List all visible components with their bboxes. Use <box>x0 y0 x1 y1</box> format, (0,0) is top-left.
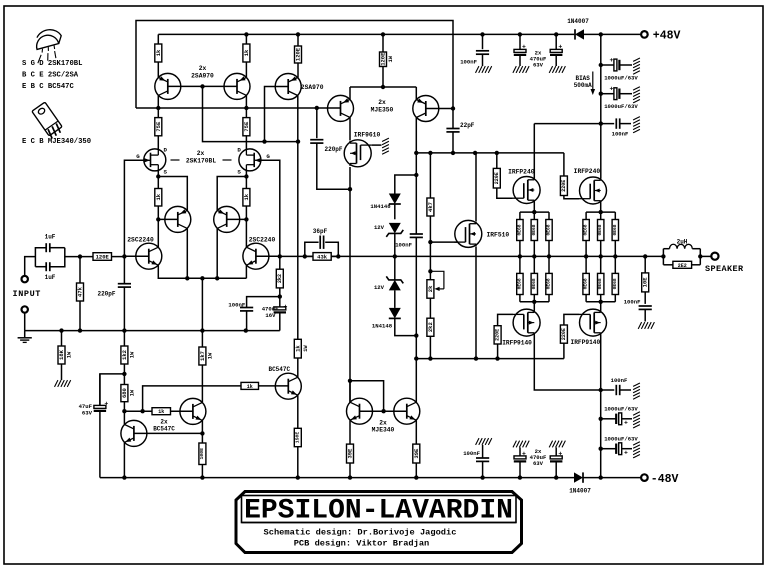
wire 43k stubs <box>305 255 339 257</box>
svg-text:1uF: 1uF <box>45 234 56 241</box>
svg-text:+: + <box>624 449 628 456</box>
svg-text:INPUT: INPUT <box>13 289 42 299</box>
svg-text:1W: 1W <box>302 345 309 352</box>
label + 470a <box>522 44 526 51</box>
svg-text:1k: 1k <box>155 193 162 200</box>
wire Q8 emitter up <box>349 87 351 99</box>
svg-text:2SC2240: 2SC2240 <box>249 237 276 244</box>
resistor 100E <box>199 433 206 477</box>
capacitor 220pF input <box>118 284 131 287</box>
resistor 0E68 bank1a <box>516 212 523 256</box>
node IRF9610 source/220pF <box>348 187 352 191</box>
wire 1k to Q4 base node <box>245 206 247 219</box>
node MJE340 diode node <box>348 379 352 383</box>
wire Q7 base riser <box>265 87 289 142</box>
label + ecap2 <box>610 86 614 93</box>
jfet J1 2SK170BL (left) <box>144 148 166 171</box>
svg-text:BC547C: BC547C <box>153 425 175 432</box>
ground hatch ecap4 <box>633 442 640 458</box>
transistor MJE340 #2 <box>394 398 420 424</box>
node dots lower drive rail <box>414 356 500 360</box>
svg-text:16V: 16V <box>265 312 276 319</box>
label 1N4007 bottom <box>569 488 591 495</box>
capacitor 22pF <box>446 109 459 153</box>
label 1N4148 upper <box>370 203 391 210</box>
wire IRF9610 gate to hatch <box>372 144 382 146</box>
wire rail y=123.6 <box>534 123 614 125</box>
title block frame <box>236 492 522 553</box>
title pcb design <box>294 539 430 549</box>
wire 220E-3 bottom <box>497 344 499 359</box>
node 120E junction <box>381 85 385 89</box>
svg-text:100nF: 100nF <box>624 299 641 306</box>
zener 12V upper <box>386 223 403 237</box>
resistor 1k (J1 source) <box>155 189 162 207</box>
svg-text:100nF: 100nF <box>228 302 245 309</box>
wire 47k to gnd rail <box>79 301 81 331</box>
transistor Q8 MJE350 (left) <box>328 95 354 121</box>
node source bus 2 <box>532 300 536 304</box>
wire BC547-1 base link <box>134 432 203 434</box>
wire Q9 collector down <box>415 117 417 152</box>
capacitor 470uF/63V bot-b <box>549 441 565 478</box>
label 100nF rail top <box>460 59 477 66</box>
diode 1N4007 (+rail, pointing left) <box>575 29 584 39</box>
node bases <box>200 84 204 88</box>
resistor 47k <box>77 283 84 301</box>
wire servo collector <box>297 358 299 377</box>
wire bases down to y=141.6 <box>203 86 299 141</box>
node dots drive rail <box>414 151 499 155</box>
label IRF9610 <box>354 132 381 139</box>
label + 470b <box>558 44 562 51</box>
wire 39E-2 to rail <box>415 463 417 478</box>
wire 2k2 to lower rail <box>429 336 431 358</box>
svg-text:120E: 120E <box>96 254 110 261</box>
wire 1k R top feed <box>157 34 159 44</box>
diode 1N4007 (-rail, pointing right) <box>574 472 583 482</box>
label D pin J2 <box>237 147 241 154</box>
svg-text:0E68: 0E68 <box>516 224 522 235</box>
svg-text:100nF: 100nF <box>612 131 629 138</box>
resistor 4k7 <box>427 198 434 216</box>
label 2x 2SA970 <box>191 65 214 80</box>
svg-text:1k: 1k <box>243 193 250 200</box>
resistor 2k2 feedback <box>276 269 283 288</box>
wire Q4 collector down <box>216 228 218 278</box>
node dots ground rail <box>59 328 248 332</box>
node fb caps <box>278 294 282 298</box>
node x=600.9 y=123.6 <box>599 121 603 125</box>
terminal INPUT ground <box>22 306 28 312</box>
label + 470c <box>522 450 526 457</box>
svg-text:12V: 12V <box>374 224 385 231</box>
ground hatch 470b <box>549 66 565 73</box>
jfet J2 2SK170BL (right, mirrored) <box>239 148 261 171</box>
label BIAS 500mA <box>574 75 592 89</box>
svg-text:2k2: 2k2 <box>427 322 434 332</box>
label 1uF bottom <box>45 274 56 281</box>
wire clamp bottom to lower rail <box>415 336 417 359</box>
svg-text:39E: 39E <box>413 448 420 459</box>
wire 120E/1W down <box>382 67 384 88</box>
wire source node to Q3 emitter <box>158 177 187 211</box>
capacitor 100nF feedback <box>240 308 253 331</box>
wire MJE340 diode link <box>350 381 384 411</box>
svg-text:+: + <box>284 303 288 310</box>
capacitor 1uF bottom of pair <box>35 248 64 272</box>
resistor 43k feedback (horizontal) <box>313 253 331 261</box>
wire 220E-2 to gate <box>564 196 579 199</box>
mosfet IRFP240 #2 <box>579 177 607 204</box>
resistor 1k (Q1 load) <box>155 44 162 62</box>
label IRFP240 #1 <box>508 169 535 176</box>
svg-text:39E: 39E <box>347 448 354 459</box>
wire IRF9610 source down <box>349 167 351 402</box>
ground hatch ecap2 <box>633 87 640 103</box>
label 12V lower <box>374 284 385 291</box>
wire 4k7 down to trimmer <box>429 216 431 280</box>
node BC547 emitter/base <box>200 431 204 435</box>
svg-text:+: + <box>558 450 562 457</box>
node Q9 base <box>451 106 455 110</box>
resistor 0E68 bank2c <box>612 212 619 256</box>
resistor 1k multiplier (horizontal) <box>152 408 171 416</box>
wire collector rail y=108 <box>136 107 341 109</box>
title EPSILON-LAVARDIN <box>244 496 513 527</box>
capacitor 470uF/63V top-b <box>550 34 562 66</box>
node MJE340 link <box>381 409 385 413</box>
wire zener lower to diode <box>394 290 396 308</box>
wire BC547-2 collector up <box>201 365 203 402</box>
label 2uH <box>677 239 688 246</box>
svg-text:100nF: 100nF <box>463 450 480 457</box>
resistor 0E68 bank1d <box>516 256 523 301</box>
wire Q6 base link <box>256 255 280 257</box>
wire rail to zener lower <box>394 256 396 280</box>
wire drive rail to clamp top <box>415 153 417 175</box>
svg-text:75E: 75E <box>155 121 162 132</box>
wire IRFP9140-1 drain <box>534 335 600 390</box>
wire 220E-4 to gate <box>564 314 579 325</box>
resistor 18K 1W <box>58 331 73 380</box>
svg-text:1W: 1W <box>66 351 73 358</box>
ground hatch 100nF top <box>476 66 492 73</box>
wire MJE340-2 collector <box>415 359 417 403</box>
wire fb node to 2k2 <box>279 256 281 269</box>
ground hatch zobel <box>638 322 654 329</box>
wire Q1 collector to node <box>157 95 159 108</box>
wire base node to Q5 collector <box>157 219 159 247</box>
svg-text:0E68: 0E68 <box>546 224 552 235</box>
ground hatch 470a <box>513 66 529 73</box>
resistor 2k2 bias <box>427 318 434 336</box>
svg-text:220E: 220E <box>561 180 567 192</box>
label + ecap3 <box>624 420 628 427</box>
resistor 220E gate IRFP9140-1 <box>494 326 501 344</box>
resistor 1k (J2 source) <box>243 189 250 207</box>
svg-text:220E: 220E <box>495 329 501 341</box>
label 220pF input <box>97 291 115 298</box>
wire IRF510 gate <box>430 241 457 243</box>
wire BC547-2 emitter <box>201 421 203 434</box>
capacitor 36pF over 43k <box>305 236 339 257</box>
svg-text:2E2: 2E2 <box>678 263 687 269</box>
resistor 0E68 bank1e <box>531 256 538 301</box>
svg-text:+: + <box>558 44 562 51</box>
capacitor 1000uF/63V #2 <box>601 88 632 100</box>
wire MJE340-1 collector <box>349 381 351 403</box>
label IRFP9140 #2 <box>571 339 601 346</box>
mosfet IRFP9140 #1 <box>513 309 541 336</box>
label 2x 470uF 63V bottom <box>530 448 547 467</box>
label +48V <box>653 30 681 43</box>
wire 220E-1 to gate <box>497 188 513 198</box>
transistor BC547C #3 <box>275 373 301 399</box>
wire source bus 4 <box>586 301 615 303</box>
svg-text:2uH: 2uH <box>677 239 688 246</box>
ground hatch bypass bottom <box>633 383 640 399</box>
wire 220E-3 to gate <box>498 314 513 325</box>
svg-text:MJE350: MJE350 <box>371 107 394 114</box>
label 2x 470uF 63V top <box>530 50 547 69</box>
svg-text:1k: 1k <box>158 409 164 415</box>
wire J2 source to node <box>245 171 247 177</box>
svg-text:IRFP9140: IRFP9140 <box>502 340 532 347</box>
label G pin J1 <box>136 153 140 160</box>
label IRFP240 #2 <box>574 168 601 175</box>
capacitor 100nF rail bypass top <box>616 118 631 128</box>
svg-text:100nF: 100nF <box>395 242 412 249</box>
svg-text:1k7: 1k7 <box>199 351 206 361</box>
legend TO-92 package drawing <box>31 27 67 63</box>
wire trimmer to 2k2 <box>429 298 431 318</box>
svg-text:S G D 2SK170BL: S G D 2SK170BL <box>22 60 82 68</box>
terminal +48V <box>641 31 648 38</box>
wire 220E-1 top <box>496 153 498 169</box>
transistor Q9 MJE350 (right) <box>413 96 439 122</box>
label 100nF lower mid <box>463 450 480 457</box>
node clamp bottom <box>414 333 418 337</box>
svg-text:BIAS: BIAS <box>575 75 590 82</box>
label 1000uF/63V #4 <box>604 435 638 442</box>
label 1N4007 top <box>567 18 589 25</box>
svg-text:63V: 63V <box>533 460 544 467</box>
svg-text:1N4148: 1N4148 <box>370 203 391 210</box>
label INPUT <box>13 289 42 299</box>
svg-text:+: + <box>104 400 108 407</box>
svg-text:220pF: 220pF <box>325 146 343 153</box>
node Q3 base <box>156 217 160 221</box>
svg-text:IRFP240: IRFP240 <box>508 169 535 176</box>
inductor 2uH with 2E2 <box>663 244 700 269</box>
resistor 0E68 bank2d <box>583 256 590 301</box>
svg-text:IRF9610: IRF9610 <box>354 132 381 139</box>
svg-text:1k: 1k <box>243 49 250 56</box>
svg-text:22pF: 22pF <box>460 122 475 129</box>
label -48V <box>651 473 679 486</box>
resistor 1k 1W (servo) <box>294 339 309 358</box>
wire Q4 base node to Q6 collector <box>245 219 247 247</box>
svg-text:+: + <box>522 450 526 457</box>
wire rail to 120E <box>297 34 299 46</box>
label D pin J1 <box>164 147 168 154</box>
wire 2k2 to cap node <box>279 288 281 297</box>
resistor 1k (Q2 load) <box>243 44 250 62</box>
wire lower drive rail <box>416 358 564 360</box>
resistor 220E gate IRFP240-1 <box>493 168 500 188</box>
wire IRFP240-1 source <box>533 202 535 212</box>
wire BC547-1 collector <box>123 411 125 424</box>
ground hatch bypass top <box>633 117 640 133</box>
wire 1k7 top <box>201 331 203 347</box>
wire rail to 120E/1W <box>382 34 384 52</box>
svg-text:220E: 220E <box>494 172 500 184</box>
wire emitter rail y=87 <box>350 86 416 88</box>
wire 1k to BC547-2 base <box>171 410 193 412</box>
wire base node up to J1 gate <box>124 160 143 256</box>
node dots output rail <box>303 254 666 258</box>
wire Q7 collector long drop <box>297 95 299 339</box>
transistor Q2 2SA970 (right of pair) <box>224 73 250 99</box>
svg-text:+: + <box>610 57 614 64</box>
resistor 680 1W <box>121 374 136 411</box>
svg-text:0E68: 0E68 <box>516 278 522 289</box>
label 36pF <box>313 228 328 235</box>
svg-text:1W: 1W <box>387 55 394 62</box>
svg-text:63V: 63V <box>82 410 93 417</box>
node trimmer top tap <box>428 269 432 273</box>
wire cap node left <box>247 297 280 308</box>
label 220pF VAS <box>325 146 343 153</box>
label 1000uF/63V #1 <box>604 75 638 82</box>
svg-text:SPEAKER: SPEAKER <box>705 264 744 274</box>
transistor BC547C #1 <box>121 420 147 446</box>
label SPEAKER <box>705 264 744 274</box>
wire 75E to J2 drain <box>245 136 247 150</box>
svg-text:2k2: 2k2 <box>277 274 283 283</box>
wire Q1-Q2 bases <box>168 85 237 87</box>
svg-text:MJE340: MJE340 <box>372 426 395 433</box>
capacitor 1uF top of pair <box>35 243 64 267</box>
svg-text:1000uF/63V: 1000uF/63V <box>604 103 638 110</box>
svg-text:1k: 1k <box>155 49 162 56</box>
legend pinout text BC547C <box>22 83 74 91</box>
resistor 0E68 bank2a <box>583 212 590 256</box>
label IRFP9140 #1 <box>502 340 532 347</box>
terminal SPEAKER <box>711 253 718 260</box>
ground earth symbol (input) <box>18 338 32 343</box>
node J1 source <box>156 174 160 178</box>
resistor 75E left <box>155 118 162 136</box>
svg-text:47k: 47k <box>77 286 84 297</box>
svg-text:-48V: -48V <box>651 473 679 486</box>
svg-text:4k7: 4k7 <box>427 202 434 212</box>
resistor 1k7 1W <box>199 347 214 365</box>
svg-text:2x: 2x <box>378 99 386 106</box>
node dots tail rail <box>185 276 219 280</box>
resistor 39E #1 <box>347 444 354 463</box>
svg-text:75E: 75E <box>243 121 250 132</box>
mosfet IRF9610 cascode <box>344 140 372 167</box>
wire diode to zener <box>394 204 396 219</box>
svg-text:0E68: 0E68 <box>597 278 603 289</box>
capacitor 1000uF/63V #4 <box>601 443 632 455</box>
transistor Q6 2SC2240 (right) <box>243 243 269 269</box>
svg-text:0E68: 0E68 <box>546 278 552 289</box>
label 2x MJE350 <box>371 99 394 114</box>
resistor 0E68 bank1b <box>531 212 538 256</box>
node feedback <box>278 254 282 258</box>
wire 150E to rail <box>297 447 299 478</box>
wire BC547-3 emitter <box>297 395 299 428</box>
terminal INPUT signal <box>22 276 28 282</box>
wire Q2 collector to node <box>245 95 247 108</box>
wire node to 75E r <box>245 108 247 118</box>
mosfet IRFP240 #1 <box>513 177 541 204</box>
wire MJE340-2 emitter <box>415 421 417 445</box>
wire bias riser <box>143 386 241 411</box>
label BC547C #3 <box>268 366 290 373</box>
wire Q3 base link <box>158 218 178 220</box>
node J2 source <box>244 174 248 178</box>
node IRF510 gate tap <box>428 240 432 244</box>
node dots on y=108 rail <box>156 106 319 111</box>
wire base node down to 220pF <box>123 256 125 283</box>
svg-text:220pF: 220pF <box>97 291 115 298</box>
wire 1k to Q2 emitter <box>245 62 247 78</box>
label 100nF bypass top <box>612 131 629 138</box>
transistor Q3 2SA970 (cascode left) <box>165 206 191 232</box>
resistor 220E gate IRFP240-2 <box>560 176 567 196</box>
svg-text:2k: 2k <box>427 285 434 292</box>
wire source bus 3 <box>586 211 615 213</box>
wire +48V rail after diode <box>583 33 641 35</box>
resistor 120E (VAS emitter) <box>295 46 302 63</box>
transistor MJE340 #1 <box>347 398 373 424</box>
wire Q8 collector down <box>349 117 351 140</box>
svg-text:36pF: 36pF <box>313 228 328 235</box>
capacitor 470uF/16V feedback <box>274 297 286 331</box>
node 47k tap <box>78 254 82 258</box>
label 47uF 63V <box>79 403 93 417</box>
node Q4 base <box>244 217 248 221</box>
label + ecap4 <box>624 449 628 456</box>
wire upper loop rail y=20.5 <box>136 21 453 109</box>
wire 1k R2 top feed <box>245 34 247 44</box>
svg-text:G: G <box>266 153 270 160</box>
node 1k2 bottom <box>122 372 126 376</box>
label 22pF <box>460 122 475 129</box>
label 100nF clamp <box>395 242 412 249</box>
wire Q9 emitter up <box>415 87 417 99</box>
wire to 47uF <box>100 374 125 406</box>
wire to speaker <box>700 255 711 257</box>
wire clamp bottom link <box>395 318 417 335</box>
svg-text:0E68: 0E68 <box>583 224 589 235</box>
svg-text:+: + <box>624 420 628 427</box>
capacitor 1000uF/63V #1 <box>601 59 632 71</box>
ground hatch ecap1 <box>633 58 640 74</box>
wire 120E to base node <box>112 256 125 258</box>
capacitor 100nF lower mid <box>476 438 492 478</box>
label 470uF 16V <box>262 306 279 319</box>
wire +48V supply rail y=34.4 <box>158 33 574 35</box>
resistor 150E <box>294 428 301 446</box>
label 1000uF/63V #3 <box>604 406 638 413</box>
svg-text:2SC2240: 2SC2240 <box>127 237 154 244</box>
wire drive rail y=152.9 <box>416 152 564 154</box>
